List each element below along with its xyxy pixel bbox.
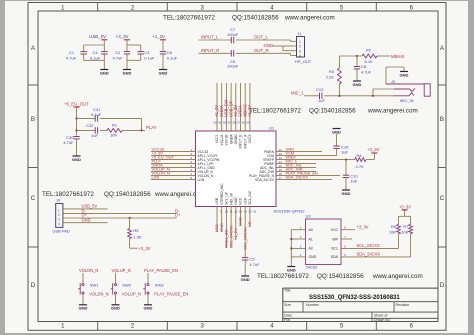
svg-text:SCL_UP: SCL_UP bbox=[225, 191, 229, 205]
ground bbox=[400, 72, 409, 78]
junction bbox=[372, 95, 374, 97]
wire bbox=[341, 256, 411, 258]
svg-text:QQ:1540182856: QQ:1540182856 bbox=[232, 15, 279, 22]
svg-text:27: 27 bbox=[237, 121, 241, 125]
svg-text:4: 4 bbox=[58, 222, 60, 226]
wire bbox=[236, 40, 296, 41]
wire bbox=[338, 84, 340, 97]
svg-text:GND: GND bbox=[123, 70, 132, 75]
U1 bottom pins 9-16 with net labels bbox=[214, 183, 256, 258]
svg-text:SCL: SCL bbox=[331, 247, 338, 251]
wire bbox=[162, 54, 164, 69]
wire bbox=[77, 117, 96, 119]
svg-text:1.5K: 1.5K bbox=[133, 234, 142, 239]
svg-text:2: 2 bbox=[131, 324, 135, 330]
resistor R2 bbox=[362, 48, 377, 64]
svg-text:www.angerei.com: www.angerei.com bbox=[367, 108, 418, 115]
svg-text:TEL:18027661972: TEL:18027661972 bbox=[163, 15, 215, 22]
U1 left pins 1-8 with net labels bbox=[151, 147, 220, 182]
svg-text:6: 6 bbox=[410, 5, 414, 11]
svg-text:100uF: 100uF bbox=[227, 32, 239, 37]
wire bbox=[373, 89, 394, 96]
wire bbox=[290, 230, 292, 266]
ground bbox=[353, 81, 362, 87]
svg-text:C13: C13 bbox=[316, 87, 324, 92]
svg-text:GND: GND bbox=[400, 72, 409, 77]
wire bbox=[76, 139, 78, 156]
svg-text:C: C bbox=[440, 195, 445, 202]
capacitor C9 bbox=[227, 50, 239, 69]
wire bbox=[199, 52, 232, 54]
net label GND bbox=[82, 217, 91, 222]
net label D- bbox=[82, 208, 180, 213]
capacitor C4 bbox=[90, 50, 108, 60]
svg-text:INPUT_A: INPUT_A bbox=[243, 134, 247, 149]
svg-text:MBIAS: MBIAS bbox=[391, 54, 405, 59]
svg-text:A1: A1 bbox=[309, 237, 313, 241]
connector J1 HP_OUT bbox=[295, 31, 312, 64]
svg-text:+3_3V: +3_3V bbox=[367, 147, 380, 152]
svg-text:4.7uF: 4.7uF bbox=[113, 55, 124, 60]
svg-text:5.1K: 5.1K bbox=[365, 59, 374, 64]
svg-text:OUT_L: OUT_L bbox=[254, 35, 268, 40]
svg-text:VCC1A: VCC1A bbox=[220, 134, 224, 146]
svg-text:17: 17 bbox=[279, 176, 283, 180]
capacitor C13 bbox=[316, 87, 325, 103]
resistor R4 bbox=[355, 153, 366, 169]
power flag +1_2V bbox=[152, 34, 166, 40]
svg-text:0.1uF: 0.1uF bbox=[167, 55, 178, 60]
svg-text:GND: GND bbox=[234, 197, 238, 205]
svg-text:4.7K: 4.7K bbox=[356, 164, 365, 169]
svg-text:VCC1B: VCC1B bbox=[225, 134, 229, 146]
svg-text:U1: U1 bbox=[269, 126, 275, 131]
wire bbox=[63, 217, 177, 219]
svg-text:GND: GND bbox=[353, 82, 362, 87]
svg-text:4: 4 bbox=[270, 324, 274, 330]
svg-text:4.7uF: 4.7uF bbox=[361, 70, 372, 75]
wire bbox=[63, 208, 108, 210]
svg-text:28: 28 bbox=[232, 121, 236, 125]
U1 top pins 25-32 with net labels bbox=[213, 83, 252, 148]
svg-text:C: C bbox=[31, 195, 36, 202]
watermark text bottom bbox=[257, 273, 423, 280]
svg-text:PLAY: PLAY bbox=[146, 125, 157, 130]
svg-text:B: B bbox=[31, 116, 35, 123]
svg-text:A2: A2 bbox=[309, 247, 313, 251]
wire bbox=[84, 54, 105, 69]
svg-text:32: 32 bbox=[213, 121, 217, 125]
svg-text:D+: D+ bbox=[175, 213, 181, 218]
svg-text:10K: 10K bbox=[401, 229, 408, 234]
svg-text:J3: J3 bbox=[56, 198, 61, 203]
svg-text:UCK: UCK bbox=[243, 197, 247, 205]
svg-text:File:: File: bbox=[284, 318, 291, 322]
svg-text:VCC5: VCC5 bbox=[248, 134, 252, 143]
svg-text:SW2: SW2 bbox=[122, 282, 131, 287]
svg-text:GND: GND bbox=[72, 157, 81, 162]
net label OUT_R bbox=[254, 48, 269, 53]
svg-text:+3_3V: +3_3V bbox=[139, 246, 151, 251]
svg-text:1: 1 bbox=[300, 226, 302, 230]
svg-text:R3: R3 bbox=[329, 69, 335, 74]
svg-text:1uF: 1uF bbox=[350, 179, 357, 184]
ground bbox=[332, 129, 341, 135]
svg-text:SDA_24CXX: SDA_24CXX bbox=[357, 252, 381, 257]
wire bbox=[130, 239, 138, 249]
svg-text:HP_OUT: HP_OUT bbox=[295, 59, 312, 64]
svg-text:+3_3V: +3_3V bbox=[357, 225, 369, 230]
svg-text:SDA: SDA bbox=[331, 255, 339, 259]
wire bbox=[339, 55, 362, 57]
svg-text:24C02: 24C02 bbox=[306, 265, 319, 270]
svg-text:TEL:18027661972: TEL:18027661972 bbox=[257, 273, 309, 280]
svg-text:www.angerei.com: www.angerei.com bbox=[372, 273, 423, 280]
switch SW2 VOLUP_N bbox=[111, 268, 141, 311]
capacitor C8 bbox=[354, 64, 372, 75]
svg-text:GNDA: GNDA bbox=[229, 134, 233, 144]
wire bbox=[341, 229, 355, 231]
svg-text:MIC_1: MIC_1 bbox=[291, 90, 304, 95]
svg-text:WP: WP bbox=[332, 237, 338, 241]
wire bbox=[410, 234, 412, 257]
resistor R3 bbox=[326, 68, 342, 84]
svg-text:6: 6 bbox=[410, 324, 414, 330]
svg-text:USB_5V: USB_5V bbox=[89, 34, 106, 39]
svg-text:1: 1 bbox=[299, 40, 301, 44]
wire bbox=[336, 148, 338, 155]
wire bbox=[122, 129, 145, 131]
wire bbox=[77, 129, 96, 131]
svg-text:4.7uF: 4.7uF bbox=[249, 262, 260, 267]
svg-text:Number: Number bbox=[306, 303, 320, 307]
wire bbox=[162, 40, 164, 52]
svg-text:+3_3V: +3_3V bbox=[399, 204, 411, 209]
svg-text:25: 25 bbox=[246, 121, 250, 125]
svg-text:SW3: SW3 bbox=[155, 282, 164, 287]
net label +3_3V bbox=[139, 246, 151, 251]
watermark text left-middle bbox=[42, 191, 205, 198]
svg-text:GND: GND bbox=[159, 70, 168, 75]
connector J2 MIC_IN jack bbox=[391, 79, 430, 103]
svg-text:SCL_24CXX: SCL_24CXX bbox=[242, 227, 247, 250]
U1 right pins 17-24 with net labels bbox=[249, 147, 346, 182]
capacitor C7 bbox=[227, 27, 239, 43]
svg-text:+1_2V: +1_2V bbox=[247, 105, 252, 117]
eeprom U2 24C02 bbox=[291, 214, 346, 270]
svg-text:7: 7 bbox=[344, 235, 346, 239]
resistor R7 bbox=[401, 224, 412, 235]
svg-text:USB: USB bbox=[215, 197, 219, 205]
wire bbox=[345, 160, 347, 176]
wire bbox=[356, 56, 358, 67]
capacitor C1 bbox=[66, 50, 87, 60]
net label D+ bbox=[82, 213, 181, 218]
svg-text:GND: GND bbox=[111, 306, 120, 311]
net label USB_5V bbox=[82, 204, 98, 209]
svg-text:QQ:1540182856: QQ:1540182856 bbox=[104, 191, 151, 198]
svg-text:VC: VC bbox=[247, 221, 252, 227]
wire bbox=[341, 247, 399, 249]
svg-text:D: D bbox=[31, 282, 36, 289]
svg-text:C32: C32 bbox=[86, 123, 94, 128]
wire bbox=[399, 210, 411, 224]
svg-text:VCC: VCC bbox=[239, 197, 243, 205]
svg-text:6: 6 bbox=[344, 244, 346, 248]
svg-text:30: 30 bbox=[223, 121, 227, 125]
wire bbox=[100, 129, 107, 131]
svg-text:GND: GND bbox=[264, 43, 274, 48]
svg-text:A: A bbox=[31, 45, 36, 52]
svg-text:GND: GND bbox=[100, 70, 109, 75]
svg-text:GND: GND bbox=[144, 306, 153, 311]
svg-text:GND: GND bbox=[342, 191, 351, 196]
svg-text:+1_2V: +1_2V bbox=[152, 34, 165, 39]
svg-text:GND: GND bbox=[79, 306, 88, 311]
svg-text:0.1uF: 0.1uF bbox=[144, 55, 155, 60]
power flag +5_EU_OUT bbox=[64, 101, 89, 107]
svg-text:PLAY_PAUSE_EN: PLAY_PAUSE_EN bbox=[144, 268, 178, 273]
wire bbox=[324, 95, 394, 97]
svg-text:4.7uF: 4.7uF bbox=[66, 55, 77, 60]
svg-text:GND: GND bbox=[309, 255, 317, 259]
ground bbox=[241, 276, 250, 282]
wire bbox=[336, 134, 338, 147]
svg-text:VOLUP_N: VOLUP_N bbox=[112, 268, 131, 273]
svg-text:SW1: SW1 bbox=[90, 282, 99, 287]
net label INPUT_L bbox=[201, 35, 219, 40]
svg-text:Revision: Revision bbox=[396, 303, 410, 307]
wire bbox=[199, 39, 232, 41]
svg-text:J1: J1 bbox=[297, 31, 302, 36]
wire bbox=[304, 95, 320, 97]
svg-text:PLAY_PAUSE_EN: PLAY_PAUSE_EN bbox=[154, 291, 188, 296]
wire bbox=[236, 53, 296, 55]
svg-text:8: 8 bbox=[344, 226, 346, 230]
wire bbox=[377, 55, 390, 57]
svg-text:0.1uF: 0.1uF bbox=[91, 112, 102, 117]
svg-text:VOLDN_N: VOLDN_N bbox=[89, 291, 108, 296]
svg-text:LDN: LDN bbox=[152, 175, 160, 180]
svg-text:1: 1 bbox=[61, 324, 65, 330]
svg-text:A0: A0 bbox=[309, 228, 313, 232]
capacitor C2 bbox=[113, 50, 131, 60]
power flag +3_3V bbox=[399, 204, 411, 210]
svg-text:2: 2 bbox=[58, 213, 60, 217]
svg-text:2.2K: 2.2K bbox=[326, 75, 335, 80]
svg-text:A: A bbox=[440, 45, 445, 52]
svg-text:SSS1530-QFN32: SSS1530-QFN32 bbox=[274, 208, 306, 213]
wire bbox=[341, 238, 352, 240]
svg-text:Drawn By:: Drawn By: bbox=[374, 318, 391, 322]
capacitor C10 bbox=[343, 174, 359, 184]
svg-text:1uF: 1uF bbox=[341, 149, 348, 154]
capacitor C31 bbox=[91, 107, 102, 121]
capacitor C30 bbox=[63, 135, 79, 145]
svg-text:5: 5 bbox=[340, 5, 344, 11]
svg-text:C8: C8 bbox=[361, 64, 367, 69]
svg-text:GND: GND bbox=[238, 217, 243, 226]
op-amp U1 SSS1530-QFN32 body bbox=[196, 126, 306, 214]
svg-text:HID_UP: HID_UP bbox=[229, 192, 233, 205]
svg-text:+1_2V: +1_2V bbox=[233, 228, 238, 240]
title block bbox=[283, 288, 438, 322]
svg-text:VOLUP_N: VOLUP_N bbox=[122, 291, 141, 296]
ground bbox=[342, 190, 351, 196]
svg-text:26: 26 bbox=[242, 121, 246, 125]
net label MBIAS bbox=[391, 54, 405, 59]
switch SW1 VOLDN_N bbox=[78, 268, 108, 311]
svg-text:GND: GND bbox=[287, 267, 296, 272]
wire bbox=[63, 213, 177, 215]
svg-text:LDN: LDN bbox=[198, 178, 205, 182]
net label SCL_24CXX bbox=[357, 243, 380, 248]
svg-text:Title: Title bbox=[284, 289, 291, 293]
svg-text:INPUT_L: INPUT_L bbox=[201, 35, 219, 40]
svg-text:www.angerei.com: www.angerei.com bbox=[284, 15, 335, 22]
svg-text:5: 5 bbox=[340, 324, 344, 330]
wire bbox=[127, 40, 141, 52]
svg-text:GND: GND bbox=[241, 277, 250, 282]
svg-text:4.7uF: 4.7uF bbox=[63, 140, 74, 145]
svg-text:SDA_24CXX: SDA_24CXX bbox=[286, 175, 309, 180]
svg-text:SCL_24C: SCL_24C bbox=[248, 190, 252, 205]
svg-text:TEL:18027661972: TEL:18027661972 bbox=[249, 108, 301, 115]
ground bbox=[72, 156, 81, 162]
svg-text:GND: GND bbox=[82, 217, 91, 222]
svg-text:R7: R7 bbox=[403, 224, 409, 229]
svg-text:1: 1 bbox=[58, 208, 60, 212]
svg-text:10K: 10K bbox=[110, 133, 117, 138]
net label INPUT_R bbox=[201, 48, 219, 53]
wire bbox=[356, 69, 358, 81]
svg-text:GNDD: GNDD bbox=[234, 134, 238, 144]
wire bbox=[129, 218, 131, 229]
net label OUT_L bbox=[254, 35, 268, 40]
svg-text:29: 29 bbox=[228, 121, 232, 125]
svg-text:R2: R2 bbox=[366, 48, 372, 53]
ground bbox=[100, 70, 109, 76]
svg-text:R4: R4 bbox=[357, 153, 363, 158]
svg-text:31: 31 bbox=[218, 121, 222, 125]
svg-text:0.1uF: 0.1uF bbox=[90, 55, 101, 60]
connector J3 USB PAD bbox=[53, 198, 70, 234]
resistor R1 bbox=[107, 123, 122, 138]
svg-text:D: D bbox=[440, 282, 445, 289]
svg-text:4: 4 bbox=[299, 54, 301, 58]
svg-text:5: 5 bbox=[344, 253, 346, 257]
wire jack ground bbox=[386, 67, 424, 84]
svg-text:2: 2 bbox=[131, 5, 135, 11]
ground bbox=[159, 70, 168, 76]
svg-text:VCC1: VCC1 bbox=[215, 134, 219, 143]
resistor R5 bbox=[128, 228, 142, 239]
ground bbox=[287, 267, 296, 273]
wire bbox=[345, 153, 375, 161]
svg-text:2: 2 bbox=[299, 45, 301, 49]
svg-text:OUT_R: OUT_R bbox=[254, 48, 269, 53]
svg-text:MIC_IN: MIC_IN bbox=[400, 98, 414, 103]
svg-text:VOLDN_N: VOLDN_N bbox=[79, 268, 98, 273]
svg-text:100uF: 100uF bbox=[227, 64, 239, 69]
wire bbox=[127, 54, 141, 69]
svg-text:R5: R5 bbox=[133, 228, 139, 233]
svg-text:J2: J2 bbox=[391, 79, 396, 84]
capacitor C5 bbox=[242, 257, 260, 267]
power flag +3_3V bbox=[367, 147, 380, 153]
wire bbox=[345, 178, 347, 190]
svg-text:TEL:18027661972: TEL:18027661972 bbox=[42, 191, 94, 198]
svg-text:3: 3 bbox=[300, 244, 302, 248]
switch SW3 PLAY_PAUSE_EN bbox=[143, 268, 188, 311]
svg-text:+3_3V: +3_3V bbox=[116, 34, 129, 39]
wire mic bias bbox=[338, 56, 340, 68]
svg-text:U2: U2 bbox=[306, 214, 312, 219]
net label GND at HP_OUT bbox=[264, 43, 274, 48]
svg-text:4: 4 bbox=[270, 5, 274, 11]
svg-text:3: 3 bbox=[299, 49, 301, 53]
net label SDA_24CXX bbox=[357, 252, 381, 257]
wire bbox=[244, 260, 246, 276]
capacitor C32 bbox=[86, 123, 98, 138]
svg-text:4: 4 bbox=[300, 253, 302, 257]
power flag +3_3V bbox=[116, 34, 130, 40]
svg-text:1uF: 1uF bbox=[91, 133, 98, 138]
watermark text top bbox=[163, 15, 335, 22]
svg-text:1uF: 1uF bbox=[318, 98, 325, 103]
net label +3_3V bbox=[357, 225, 369, 230]
watermark text right-middle bbox=[249, 108, 418, 115]
wire bbox=[75, 107, 77, 136]
capacitor C3 bbox=[138, 50, 156, 60]
wire bbox=[273, 46, 297, 51]
svg-text:16: 16 bbox=[253, 210, 257, 214]
svg-text:3: 3 bbox=[201, 324, 205, 330]
svg-text:3: 3 bbox=[58, 217, 60, 221]
net label MIC_1 bbox=[291, 90, 304, 95]
svg-text:QQ:1540182856: QQ:1540182856 bbox=[309, 108, 356, 115]
power flag USB_5V bbox=[89, 34, 107, 40]
resistor R6 bbox=[389, 224, 401, 235]
svg-text:QQ:1540182856: QQ:1540182856 bbox=[317, 273, 364, 280]
svg-text:SSS1530_QFN32-SSS-20160831: SSS1530_QFN32-SSS-20160831 bbox=[309, 295, 400, 301]
wire bbox=[63, 222, 108, 224]
svg-text:INPUT_R: INPUT_R bbox=[201, 48, 219, 53]
svg-text:SDA_24CXX: SDA_24CXX bbox=[255, 178, 275, 182]
svg-text:R6: R6 bbox=[391, 224, 397, 229]
svg-text:1: 1 bbox=[61, 5, 65, 11]
svg-text:B: B bbox=[440, 116, 444, 123]
wire bbox=[100, 118, 142, 130]
svg-text:3: 3 bbox=[201, 5, 205, 11]
svg-text:SCL_24CXX: SCL_24CXX bbox=[357, 243, 380, 248]
svg-text:2: 2 bbox=[300, 235, 302, 239]
wire bbox=[398, 234, 400, 249]
capacitor C6 bbox=[160, 50, 178, 60]
svg-text:10K: 10K bbox=[389, 229, 396, 234]
svg-text:USB PAD: USB PAD bbox=[53, 229, 70, 234]
svg-text:R1: R1 bbox=[112, 123, 118, 128]
svg-text:Sheet of: Sheet of bbox=[374, 314, 387, 318]
svg-text:STEREO_MIC: STEREO_MIC bbox=[220, 183, 224, 205]
svg-text:INPUT_B: INPUT_B bbox=[239, 134, 243, 149]
svg-text:+5_EU_OUT: +5_EU_OUT bbox=[64, 101, 89, 106]
svg-text:VCC: VCC bbox=[331, 228, 339, 232]
svg-text:Date:: Date: bbox=[284, 314, 293, 318]
ground bbox=[123, 70, 132, 76]
net label PLAY bbox=[146, 125, 157, 130]
wire bbox=[84, 40, 105, 52]
